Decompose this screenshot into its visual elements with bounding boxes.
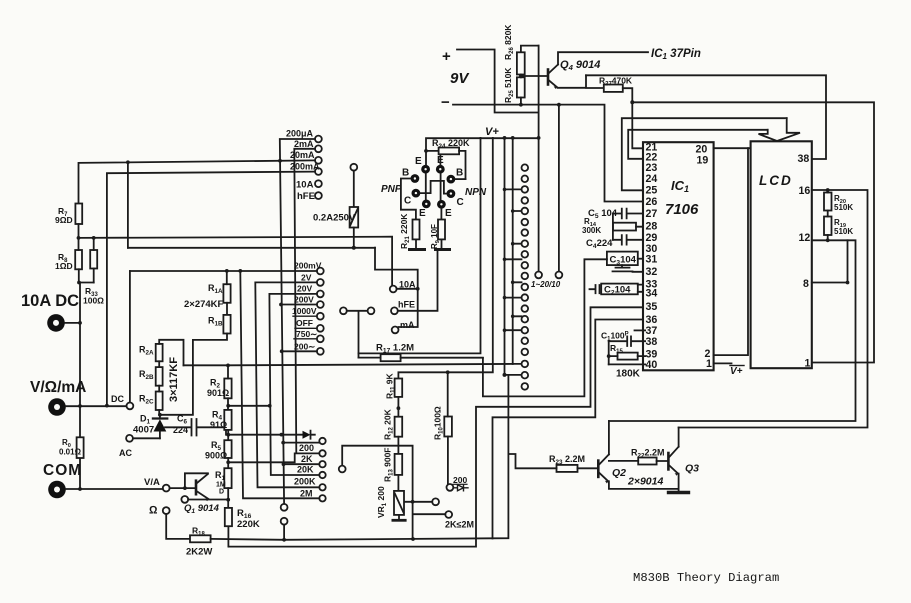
wire NPN E down to R9 [440, 209, 442, 220]
svg-text:35: 35 [646, 301, 658, 313]
svg-text:24: 24 [646, 173, 658, 185]
svg-text:B: B [456, 168, 463, 179]
svg-text:PNP: PNP [381, 184, 402, 195]
ohm jack [149, 505, 190, 539]
wire IC1 pin35 arm down left to bottom bus L2 [228, 307, 643, 546]
svg-text:38: 38 [798, 153, 810, 165]
resistor R23 2.2M [508, 454, 597, 472]
resistor R2 901ohm [207, 364, 232, 410]
wire 2K row to Vx4 [284, 463, 320, 465]
svg-text:hFE: hFE [398, 300, 415, 310]
resistor R4 91ohm [210, 410, 232, 441]
svg-text:19: 19 [697, 154, 709, 166]
svg-text:4007: 4007 [133, 425, 154, 436]
capacitor C5 104 [588, 208, 643, 220]
resistor R22 2.2M [609, 448, 668, 465]
node R25 bottom on minus bus [519, 103, 523, 107]
svg-text:mA: mA [400, 320, 415, 330]
resistor R2C [139, 386, 163, 415]
svg-text:8: 8 [803, 278, 809, 290]
wire R23 node to column [505, 374, 522, 376]
svg-text:38: 38 [646, 336, 658, 348]
svg-text:200: 200 [453, 475, 467, 485]
resistor R8 1ohm [55, 238, 82, 283]
current jacks 200uA..hFE labels [286, 129, 320, 203]
svg-text:Q2: Q2 [612, 467, 626, 479]
svg-text:31: 31 [646, 254, 658, 266]
svg-text:510K: 510K [834, 227, 853, 236]
battery 9V labels [441, 48, 470, 111]
svg-text:C: C [404, 196, 411, 207]
wire v3 taps down to R23 node [504, 138, 506, 375]
wire 20V contact to Vx3 down to 20K row [269, 294, 319, 475]
svg-text:510K: 510K [834, 203, 853, 212]
IC chip IC1 7106 [643, 142, 714, 370]
svg-text:2K2W: 2K2W [186, 547, 212, 558]
label V+ with overline at IC1 pin1 [730, 366, 743, 377]
wire R4 R5 junction to ohm diode row [228, 434, 302, 436]
svg-text:3×117KF: 3×117KF [168, 357, 180, 402]
svg-text:36: 36 [646, 314, 658, 326]
svg-text:1: 1 [805, 358, 811, 370]
svg-text:M830B Theory Diagram: M830B Theory Diagram [633, 571, 779, 585]
resistor R7 9ohm [55, 204, 82, 238]
wire Q4 collector to IC1 37 pin label [558, 52, 648, 64]
svg-text:AC: AC [119, 448, 132, 458]
resistor R1A 2x274KF [184, 271, 231, 315]
svg-text:0.01Ω: 0.01Ω [59, 448, 82, 457]
contact 2K-2M [413, 511, 474, 529]
svg-text:27: 27 [646, 208, 658, 220]
wire R26 top elbow [521, 46, 539, 53]
jack 200mA [315, 168, 322, 175]
transistor socket E B C E PNP side [402, 156, 431, 219]
LCD block [751, 141, 812, 368]
wire IC1 pin36 arm [493, 320, 644, 539]
wire V+ line to socket E and R24 [426, 138, 539, 165]
svg-text:+: + [442, 48, 451, 65]
wire 2V contact to Vx2 down to 200K row [255, 282, 319, 487]
svg-text:7106: 7106 [665, 201, 699, 218]
svg-text:901Ω: 901Ω [207, 388, 229, 398]
svg-text:COM: COM [43, 462, 82, 479]
wire row1 to Vx4 [283, 442, 319, 444]
wire R27 right to common bus node [623, 88, 633, 102]
ohm range contact pair [181, 496, 228, 503]
svg-text:V/Ω/mA: V/Ω/mA [30, 379, 86, 396]
wire bus 200mV row [130, 270, 317, 272]
svg-text:C4224: C4224 [586, 238, 613, 250]
svg-text:1000V: 1000V [292, 306, 317, 316]
svg-text:2×9014: 2×9014 [627, 476, 663, 488]
wire fuse bus riser [127, 162, 129, 248]
svg-text:hFE: hFE [297, 191, 315, 202]
resistor R0 0.01ohm [59, 437, 84, 458]
svg-text:2mA: 2mA [294, 139, 314, 149]
fuse 0.2A 250V [313, 164, 358, 250]
svg-text:20V: 20V [297, 284, 312, 294]
svg-text:25: 25 [646, 185, 658, 197]
svg-text:Q3: Q3 [685, 463, 699, 475]
ground [669, 489, 689, 493]
resistor R21 220K [399, 213, 425, 250]
wire battery minus bus to IC1 pin26 [453, 105, 643, 202]
svg-text:IC1 37Pin: IC1 37Pin [651, 48, 701, 61]
resistor R12 20K [383, 408, 403, 453]
wire IC1 pin1 V+ stub [714, 362, 732, 364]
wire PNP B down to R21 [401, 179, 416, 220]
wire V+ rail v1 down to hFE common [359, 138, 481, 354]
taps v4 to column [513, 211, 522, 364]
svg-text:9V: 9V [450, 70, 470, 87]
jack 20mA [315, 157, 322, 164]
diode D1 4007 [133, 413, 167, 438]
resistor R9 10F [430, 220, 450, 250]
range contacts 10A hFE mA [390, 280, 416, 334]
wire 2M row to Vx1 [240, 271, 319, 498]
wire LCD pin8 [812, 240, 848, 282]
capacitor C3 104 boxed [607, 252, 643, 272]
wire IC1 pin20 to LCD [714, 147, 751, 149]
LCD pin numbers [759, 153, 811, 370]
wire R5 R1 junction to 200 row jog [228, 453, 295, 462]
wire 200V contact to Vx4 [281, 304, 317, 306]
wire v4 taps [512, 138, 514, 364]
terminal V ohm mA [48, 398, 126, 416]
jack 2mA [315, 145, 322, 152]
svg-text:100Ω: 100Ω [83, 296, 104, 306]
svg-text:C2104: C2104 [604, 285, 631, 297]
resistor R27 470K [599, 76, 633, 92]
svg-text:1ΩD: 1ΩD [55, 261, 73, 271]
wire R25 R26 junction to Q4 base [521, 75, 547, 77]
terminal 10A DC [47, 314, 82, 332]
wire R1B bottom to D1 node [160, 334, 227, 415]
svg-text:16: 16 [799, 185, 811, 197]
wire V+ rail v2 down to R11 R10 tops [398, 138, 492, 379]
wire C to C bridge [420, 181, 446, 194]
svg-text:−: − [441, 94, 450, 111]
svg-text:1: 1 [706, 358, 712, 370]
svg-text:0.2A250V: 0.2A250V [313, 213, 356, 224]
svg-text:E: E [419, 208, 426, 219]
resistor R5 900ohm [205, 440, 232, 468]
svg-text:Q1 9014: Q1 9014 [184, 503, 220, 515]
svg-text:200∼: 200∼ [294, 341, 315, 351]
svg-text:224: 224 [173, 425, 188, 435]
svg-text:B: B [402, 168, 409, 179]
transistor Q4 9014 [548, 59, 600, 89]
wire emitter straps [426, 154, 441, 200]
svg-text:28: 28 [646, 221, 658, 233]
resistor R17 1.2M [359, 343, 483, 362]
resistor R16 220K [225, 508, 260, 530]
resistor R19 510K [824, 211, 853, 243]
svg-text:200: 200 [299, 443, 314, 453]
svg-text:V+: V+ [485, 126, 499, 138]
svg-text:20K: 20K [297, 465, 314, 475]
svg-text:750∼: 750∼ [296, 329, 317, 339]
svg-text:V+: V+ [730, 366, 743, 377]
svg-text:OFF: OFF [296, 318, 313, 328]
wire battery plus to V+ rail vertical [457, 50, 539, 113]
svg-text:26: 26 [646, 196, 658, 208]
wire 200mA jack left down to R7 R8 junction row [107, 172, 315, 406]
resistor R1B [208, 315, 231, 334]
node common bus [630, 100, 634, 104]
contact AC [119, 435, 160, 458]
svg-text:32: 32 [646, 266, 658, 278]
resistor R13 900F [383, 448, 403, 491]
svg-text:91Ω: 91Ω [210, 420, 227, 430]
wire main bus y248 [128, 247, 375, 249]
svg-text:9ΩD: 9ΩD [55, 215, 73, 225]
svg-text:LCD: LCD [759, 173, 793, 188]
wire LCD pin16 to Q3 collector riser [679, 190, 868, 428]
svg-text:12: 12 [799, 232, 811, 244]
wire fuse bus branch to 10A hFE mA [375, 248, 418, 327]
svg-text:2K: 2K [301, 454, 313, 464]
resistor R18 2K2W [186, 526, 212, 558]
wire Q4 emitter to R27 and right bus [558, 75, 604, 88]
svg-text:NPN: NPN [465, 187, 487, 198]
wire emitter bus to LCD pin38 [586, 75, 826, 159]
potentiometer VR1 200 [376, 486, 405, 520]
wire LCD pin12 to Q2 collector riser [609, 240, 856, 421]
wire IC1 pin2 riser [714, 148, 748, 355]
hFE selector pair [340, 307, 374, 357]
capacitor C6 224 [165, 414, 226, 436]
taps v3 to column [505, 189, 522, 330]
svg-text:180K: 180K [616, 369, 641, 380]
resistor R2B [139, 361, 163, 385]
svg-text:D: D [219, 489, 224, 496]
svg-text:E: E [445, 208, 452, 219]
wire R15 C1 common to IC1 pin40 [609, 363, 645, 365]
wire A from R17 elbow up to C3 pin31 [483, 259, 607, 396]
contact 200 ohm with diode [447, 475, 469, 491]
resistor R26 820K [503, 24, 525, 75]
wire bus node down to IC1 pin21 [632, 102, 643, 148]
svg-text:900Ω: 900Ω [205, 451, 227, 461]
svg-text:200mV: 200mV [294, 261, 322, 271]
transistor Q3 [668, 428, 699, 489]
capacitor C4 224 [586, 235, 643, 250]
wire bottom bus L1 [211, 375, 509, 540]
svg-text:V/A: V/A [144, 477, 160, 488]
svg-text:10A DC: 10A DC [21, 292, 79, 310]
voltage switch contacts [317, 268, 324, 355]
capacitor C2 104 boxed [590, 284, 644, 297]
switch pair on Vx4 [281, 504, 288, 511]
svg-text:2×274KF: 2×274KF [184, 299, 224, 310]
node 20mA wire to fuse bus riser [126, 160, 130, 164]
wire common bus to far right and LCD pin1 [632, 102, 874, 362]
svg-text:40: 40 [646, 359, 658, 371]
resistor R1 1M [215, 468, 232, 508]
svg-text:220K: 220K [237, 519, 260, 530]
backplane arrow to LCD [759, 118, 801, 141]
node 200mA vertical at V row [105, 404, 109, 408]
svg-text:200V: 200V [294, 295, 314, 305]
svg-text:Q4 9014: Q4 9014 [560, 59, 600, 72]
wire 200~ contact to Vx4 [282, 350, 317, 352]
wire VR1 wiper row to riser [342, 446, 412, 539]
jack 200uA [315, 136, 322, 143]
svg-text:R17 1.2M: R17 1.2M [376, 343, 414, 355]
IC1 pin numbers [646, 142, 713, 372]
svg-text:2M: 2M [300, 489, 313, 499]
wire R2 R4 junction row to Vx3 [228, 405, 270, 407]
wire R24 right down to NPN B [456, 178, 466, 180]
svg-text:C: C [457, 197, 464, 208]
contact DC [111, 271, 133, 409]
wire IC1 pin22 to backplane line [628, 130, 768, 159]
transistor Q2 [598, 421, 678, 489]
resistor R11 9K [385, 372, 403, 416]
resistor R20 510K [824, 188, 853, 212]
diode ohm protect [303, 431, 315, 439]
svg-text:2V: 2V [301, 273, 312, 283]
contacts 1-20/10 [531, 103, 562, 289]
svg-text:1M: 1M [216, 482, 226, 489]
wire IC1 pin37 stub [635, 329, 646, 331]
capacitor C1 100P [601, 331, 645, 347]
svg-text:E: E [415, 156, 422, 167]
svg-text:DC: DC [111, 394, 124, 404]
svg-text:300K: 300K [582, 226, 601, 235]
resistor R10 100ohm [433, 372, 452, 484]
wire R8 R33 bottoms joined [79, 282, 94, 284]
resistor R25 510K [503, 67, 525, 105]
terminal COM [48, 481, 163, 499]
resistor ladder contacts 200..2M [319, 438, 325, 502]
svg-text:200μA: 200μA [286, 129, 314, 139]
rotary column circles 1-20 [522, 164, 529, 389]
wire 20mA jack long left to R7 top [79, 160, 316, 203]
svg-text:2K≤2M: 2K≤2M [445, 520, 474, 530]
node R10 top [446, 370, 450, 374]
wire left vertical from R8 down through terminals [79, 283, 81, 490]
resistor R15 180K [607, 341, 645, 379]
node V+ line junction [537, 136, 541, 140]
svg-text:Ω: Ω [149, 505, 158, 517]
svg-text:1~20/10: 1~20/10 [531, 280, 561, 289]
svg-text:34: 34 [646, 287, 658, 299]
svg-text:C3104: C3104 [610, 254, 637, 266]
wire 200uA jack to Vx4 vertical down to bottom bus [280, 139, 315, 540]
resistor R24 220K [426, 138, 470, 179]
svg-text:10A: 10A [296, 179, 314, 190]
jack 10A [315, 180, 322, 187]
resistor R14 300K [582, 214, 643, 240]
jack hFE [315, 192, 322, 199]
wire 2mA jack to Vx5 vertical down to 200 row [294, 149, 319, 454]
wire IC1 pin25 to backplane line [622, 118, 787, 190]
wire chain top bus to column [184, 364, 513, 365]
wire V+ rail vertical from plus join down to switch circle [538, 46, 540, 272]
transistor Q1 9014 [144, 473, 220, 515]
svg-text:200K: 200K [294, 477, 316, 487]
transistor socket E B C E NPN side [436, 155, 464, 219]
resistor R33 100ohm [83, 238, 104, 306]
resistor R2A [139, 340, 184, 366]
wire junction row R7 R8 R33 [79, 237, 393, 286]
